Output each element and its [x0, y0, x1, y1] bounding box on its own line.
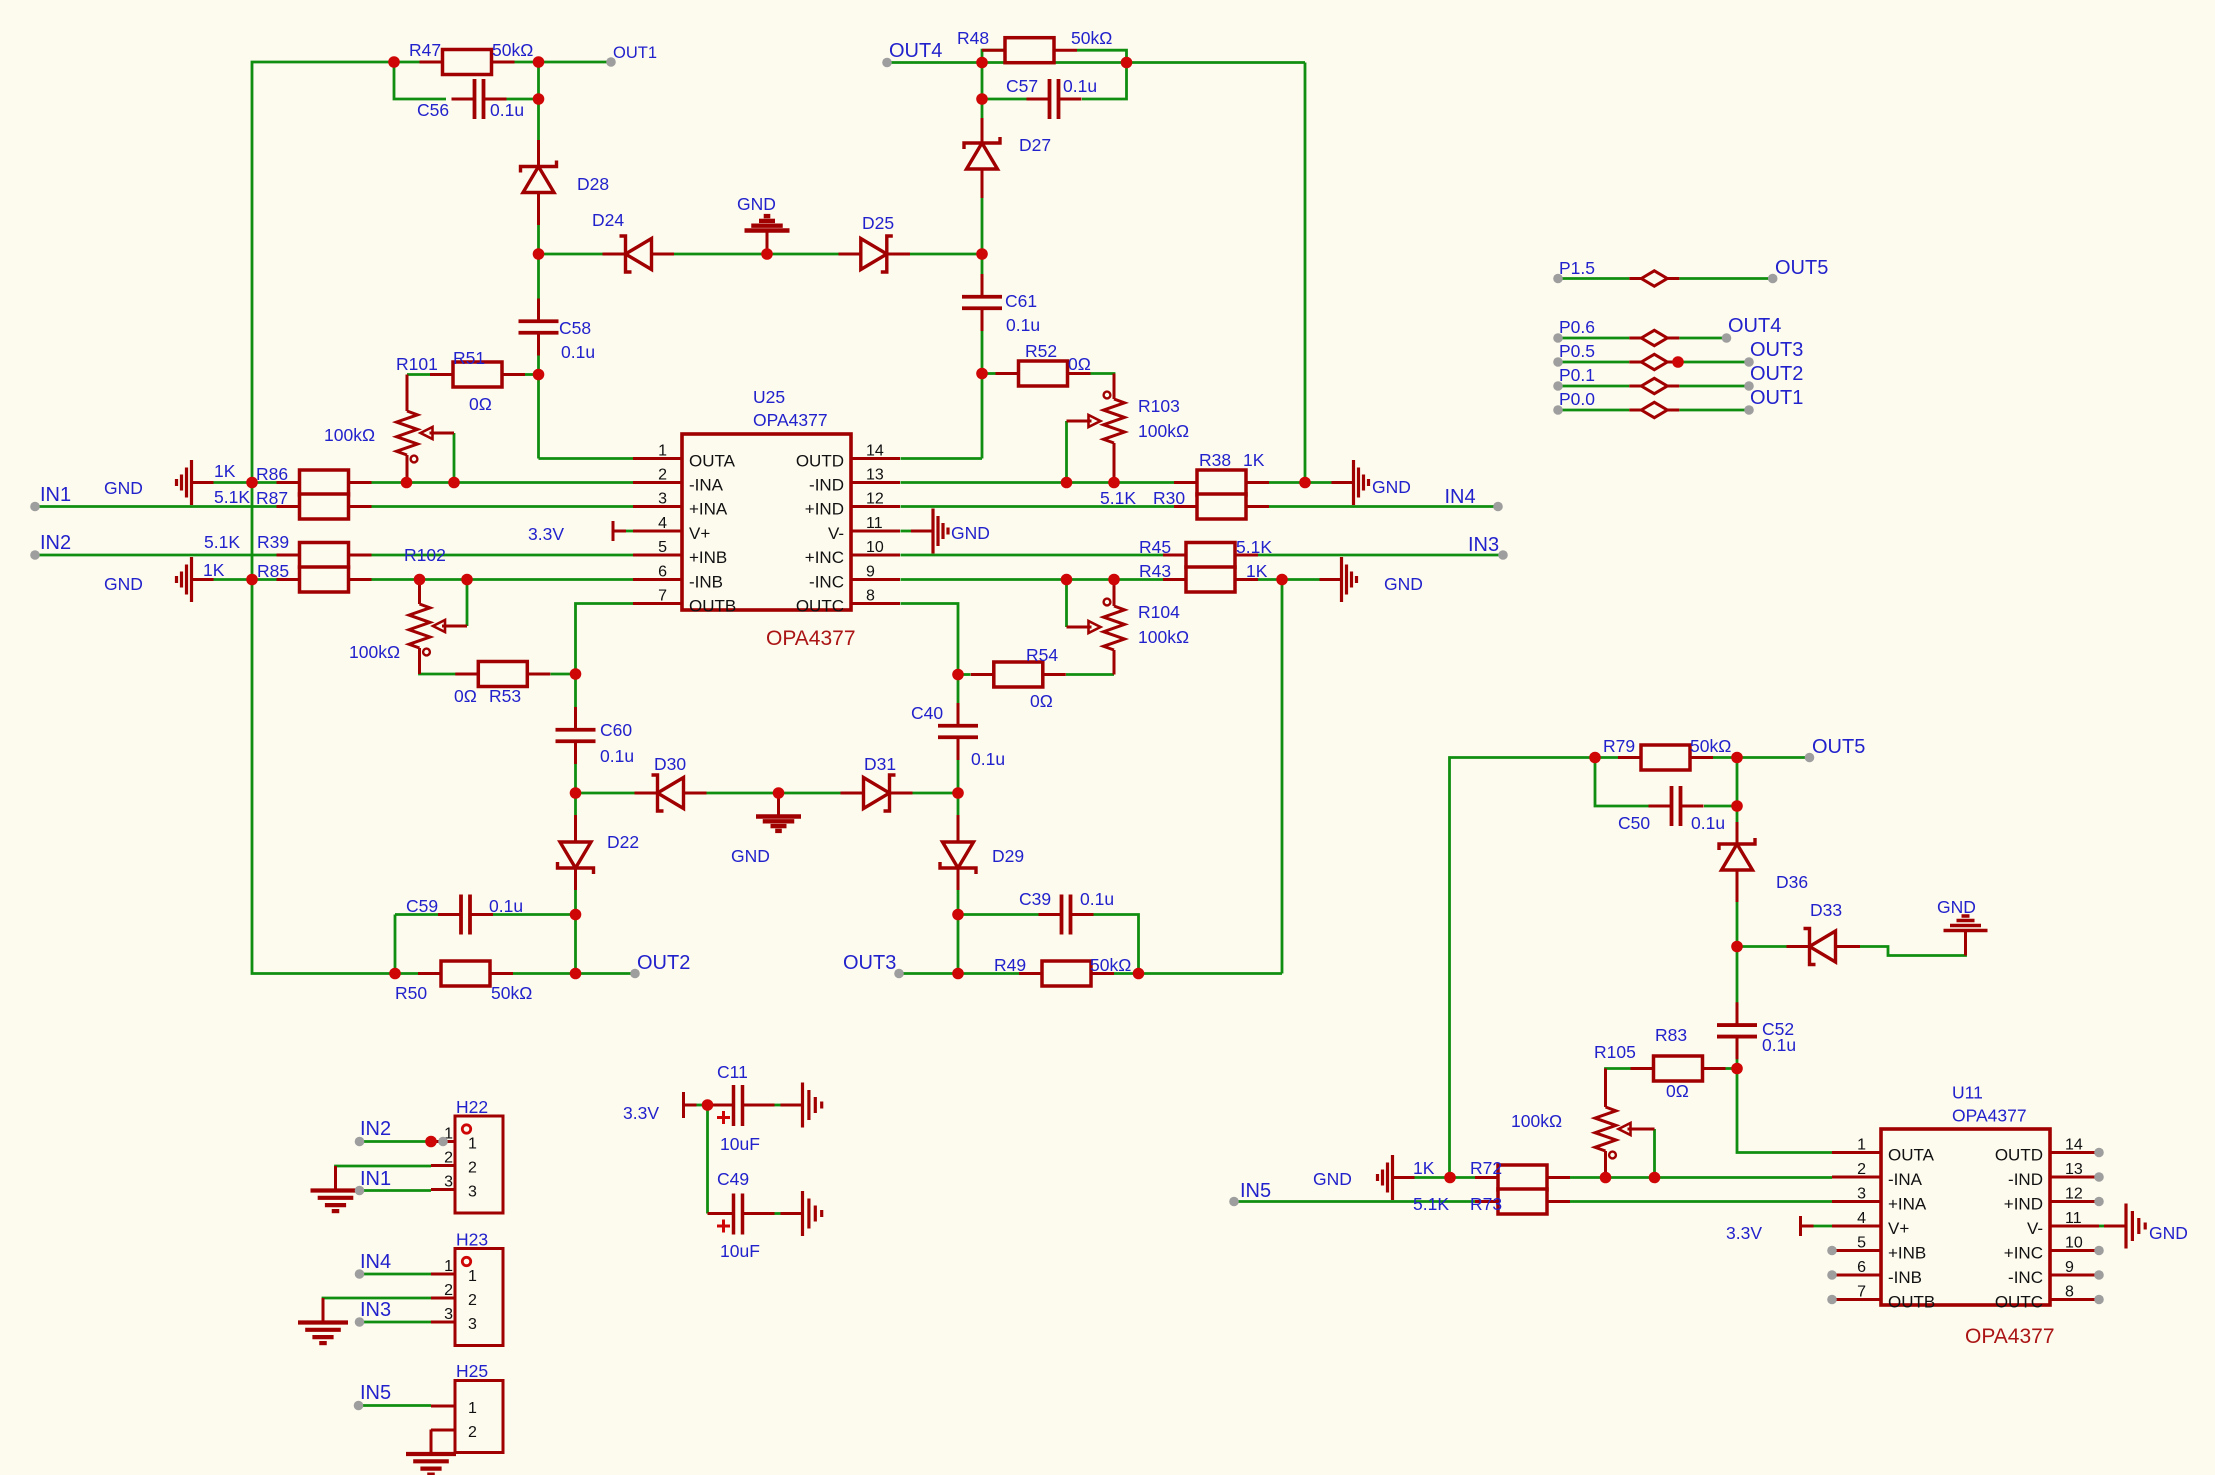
svg-text:-IND: -IND	[2008, 1170, 2043, 1189]
svg-text:OUTC: OUTC	[1995, 1293, 2043, 1312]
svg-text:5.1K: 5.1K	[1413, 1194, 1449, 1214]
svg-text:D30: D30	[654, 754, 686, 774]
svg-text:2: 2	[1857, 1161, 1866, 1178]
svg-text:IN3: IN3	[360, 1299, 391, 1321]
wire IN4 to H23 pin1	[360, 1273, 432, 1276]
svg-text:C39: C39	[1019, 889, 1051, 909]
wire R101 wiper	[453, 433, 456, 483]
wire R87 to U25 pin3	[372, 505, 634, 508]
svg-text:GND: GND	[1372, 477, 1411, 497]
svg-text:R49: R49	[994, 955, 1026, 975]
svg-text:5: 5	[658, 539, 667, 556]
svg-text:OUT4: OUT4	[889, 40, 942, 62]
svg-text:OPA4377: OPA4377	[766, 627, 856, 650]
wire C52 to R83 node	[1736, 1047, 1739, 1069]
pin header H23	[431, 1249, 503, 1346]
wire node to D30	[576, 792, 635, 795]
svg-text:5: 5	[1857, 1235, 1866, 1252]
open pin end	[1827, 1295, 1837, 1305]
wire C50 left jog	[1595, 758, 1649, 807]
open pin end	[1553, 405, 1563, 415]
wire C59 left	[395, 913, 438, 916]
open pin end	[355, 1137, 365, 1147]
resistor R43	[1163, 567, 1258, 592]
wire R53 to node	[551, 673, 576, 676]
wire node to D33	[1737, 945, 1787, 948]
potentiometer R104	[1104, 580, 1125, 675]
svg-text:R54: R54	[1026, 645, 1058, 665]
zener diode D29	[940, 815, 976, 890]
open pin end	[2094, 1148, 2104, 1158]
svg-text:6: 6	[1857, 1259, 1866, 1276]
wire D24 left	[539, 253, 611, 256]
open pin end	[355, 1186, 365, 1196]
wire U25 pin10 to R45	[901, 554, 1164, 557]
svg-text:0Ω: 0Ω	[469, 394, 492, 414]
ground for R86	[177, 460, 214, 505]
wire jumper to OUT3	[1679, 361, 1749, 364]
svg-text:GND: GND	[1384, 574, 1423, 594]
wire to R43	[1114, 578, 1163, 581]
junction	[952, 669, 964, 681]
junction	[1061, 574, 1073, 586]
junction	[401, 477, 413, 489]
svg-text:0.1u: 0.1u	[1762, 1035, 1796, 1055]
wire C56 left	[394, 62, 446, 99]
junction	[1133, 968, 1145, 980]
wire R83 to node	[1726, 1067, 1738, 1070]
svg-text:R43: R43	[1139, 561, 1171, 581]
wire P1.5 to jumper	[1558, 277, 1629, 280]
wire D27 anode to D25 node	[981, 198, 984, 254]
ground for R85	[177, 557, 214, 602]
open pin end	[2094, 1246, 2104, 1256]
potentiometer R102	[409, 580, 430, 675]
open pin end	[1229, 1197, 1239, 1207]
svg-text:12: 12	[2065, 1186, 2083, 1203]
wire D31 to node	[913, 792, 959, 795]
wire to R50	[395, 972, 418, 975]
wire C57 left	[982, 98, 1027, 101]
svg-text:R52: R52	[1025, 341, 1057, 361]
resistor R52	[996, 361, 1091, 386]
open pin end	[355, 1269, 365, 1279]
wire to R86	[252, 481, 277, 484]
resistor R30	[1174, 494, 1269, 519]
pin header H25	[431, 1381, 503, 1453]
junction	[1731, 1063, 1743, 1075]
svg-text:9: 9	[866, 564, 875, 581]
svg-text:1: 1	[658, 443, 667, 460]
wire node down to pin14 row	[981, 374, 984, 459]
svg-text:H25: H25	[456, 1361, 488, 1381]
resistor R73	[1475, 1189, 1570, 1214]
open pin end	[354, 1401, 364, 1411]
open pin end	[1827, 1246, 1837, 1256]
junction	[425, 1136, 437, 1148]
svg-text:3.3V: 3.3V	[528, 524, 564, 544]
svg-text:0.1u: 0.1u	[1006, 315, 1040, 335]
junction	[976, 93, 988, 105]
svg-text:0.1u: 0.1u	[561, 342, 595, 362]
wire node to R49	[958, 972, 1019, 975]
svg-text:7: 7	[658, 588, 667, 605]
jumper P1.5-OUT5	[1629, 271, 1679, 286]
svg-text:2: 2	[468, 1292, 477, 1309]
svg-text:R48: R48	[957, 28, 989, 48]
svg-text:3.3V: 3.3V	[1726, 1223, 1762, 1243]
junction	[448, 477, 460, 489]
wire R48 right jog	[1077, 50, 1127, 62]
svg-text:P0.5: P0.5	[1559, 341, 1595, 361]
wire R45 to IN3 flag	[1258, 554, 1503, 557]
wire R104 wiper riser	[1065, 580, 1068, 628]
svg-text:+IND: +IND	[805, 500, 844, 519]
svg-text:R51: R51	[453, 348, 485, 368]
ground U11 pin11	[2104, 1204, 2145, 1249]
wire to OUT1 flag	[539, 61, 612, 64]
R103 wiper arrow	[1067, 415, 1101, 427]
open pin end	[438, 1137, 448, 1147]
junction	[976, 248, 988, 260]
svg-text:OUT3: OUT3	[1750, 339, 1803, 361]
wire P0.1 to jumper	[1558, 385, 1629, 388]
wire node to GND	[1282, 578, 1320, 581]
wire R103 bottom to pin13 row	[1113, 443, 1116, 483]
wire C49 node	[708, 1212, 711, 1215]
capacitor C11 (polarized)	[708, 1085, 775, 1126]
svg-text:OUTB: OUTB	[689, 597, 736, 616]
svg-text:0Ω: 0Ω	[1030, 691, 1053, 711]
open pin end	[2094, 1295, 2104, 1305]
svg-text:OUTA: OUTA	[689, 452, 736, 471]
potentiometer R103	[1104, 374, 1125, 483]
open pin end	[1827, 1270, 1837, 1280]
svg-text:50kΩ: 50kΩ	[492, 40, 533, 60]
wire to R38	[1114, 481, 1174, 484]
svg-text:R47: R47	[409, 40, 441, 60]
wire D33 to GND	[1860, 932, 1966, 956]
svg-text:R38: R38	[1199, 450, 1231, 470]
ground H22	[311, 1166, 361, 1211]
capacitor C40	[938, 703, 978, 760]
wire jumper to OUT4	[1679, 337, 1726, 340]
wire jumper to OUT5	[1679, 277, 1772, 280]
svg-text:6: 6	[658, 564, 667, 581]
junction	[246, 574, 258, 586]
svg-text:C11: C11	[717, 1062, 748, 1082]
open pin end	[2094, 1197, 2104, 1207]
wire U25 pin9 to wiper node	[901, 578, 1067, 581]
resistor R79	[1618, 745, 1713, 770]
svg-text:7: 7	[1857, 1284, 1866, 1301]
resistor R83	[1631, 1056, 1726, 1081]
svg-text:0Ω: 0Ω	[1666, 1081, 1689, 1101]
wire P0.0 to jumper	[1558, 409, 1629, 412]
zener diode D27	[964, 118, 1000, 198]
svg-text:3: 3	[1857, 1186, 1866, 1203]
pin header H22	[431, 1116, 503, 1213]
svg-text:OPA4377: OPA4377	[1965, 1325, 2055, 1348]
svg-text:D33: D33	[1810, 900, 1842, 920]
wire IN2 to H22 pin1	[360, 1140, 432, 1143]
junction	[1649, 1172, 1661, 1184]
svg-text:3: 3	[468, 1316, 477, 1333]
svg-text:D28: D28	[577, 174, 609, 194]
wire node to C57 node	[982, 61, 1127, 64]
wire C40 to D31 node	[957, 745, 960, 793]
wire U25 pin12 to R30	[901, 505, 1175, 508]
wire C39 left	[958, 913, 1039, 916]
open pin end	[1744, 405, 1754, 415]
svg-text:-INC: -INC	[2008, 1268, 2043, 1287]
svg-text:1K: 1K	[203, 560, 225, 580]
svg-text:+IND: +IND	[2004, 1195, 2043, 1214]
svg-text:OUT5: OUT5	[1775, 257, 1828, 279]
junction	[570, 968, 582, 980]
wire 3.3V to U25 pin4	[613, 530, 633, 533]
wire R51 to node	[525, 373, 539, 376]
wire C39 right down	[1094, 915, 1139, 974]
junction	[1061, 477, 1073, 489]
open pin end	[1805, 753, 1815, 763]
capacitor C58	[519, 299, 559, 356]
svg-text:IN4: IN4	[360, 1251, 391, 1273]
svg-text:14: 14	[866, 443, 884, 460]
op-amp U11 OPA4377	[1832, 1129, 2099, 1312]
wire to right vertical	[1127, 61, 1306, 64]
svg-text:GND: GND	[104, 478, 143, 498]
wire GND node to D31	[779, 792, 841, 795]
wire node to R72	[1450, 1176, 1475, 1179]
wire C49 to GND	[775, 1212, 781, 1215]
svg-text:U11: U11	[1952, 1083, 1983, 1103]
open pin end	[1744, 357, 1754, 367]
svg-text:0.1u: 0.1u	[489, 896, 523, 916]
junction	[952, 787, 964, 799]
junction	[1731, 800, 1743, 812]
capacitor C39	[1039, 895, 1094, 935]
svg-text:4: 4	[1857, 1210, 1866, 1227]
svg-text:GND: GND	[737, 194, 776, 214]
capacitor C52	[1717, 1002, 1757, 1059]
resistor R39	[277, 543, 372, 568]
svg-text:100kΩ: 100kΩ	[1138, 421, 1189, 441]
svg-text:OUT4: OUT4	[1728, 315, 1781, 337]
svg-text:-INA: -INA	[689, 476, 724, 495]
3.3V supply U25	[613, 521, 626, 541]
resistor R47	[420, 50, 515, 75]
wire OUT4 flag to node	[887, 61, 982, 64]
junction	[246, 477, 258, 489]
open pin end	[1498, 550, 1508, 560]
svg-text:0Ω: 0Ω	[454, 686, 477, 706]
resistor R86	[277, 470, 372, 495]
wire node to C52	[1736, 947, 1739, 1020]
wire C11 node down to C49	[706, 1105, 709, 1214]
svg-text:10: 10	[866, 539, 884, 556]
svg-text:GND: GND	[1937, 897, 1976, 917]
svg-text:GND: GND	[1313, 1169, 1352, 1189]
svg-text:R30: R30	[1153, 488, 1185, 508]
wire node to U11 pin1	[1737, 1069, 1857, 1153]
junction	[1121, 57, 1133, 69]
wire C60 to D30 node	[574, 749, 577, 793]
junction	[1672, 356, 1684, 368]
ground above D33	[1944, 916, 1988, 956]
svg-text:-IND: -IND	[809, 476, 844, 495]
wire U25 pin13 to wiper node	[901, 481, 1067, 484]
svg-text:1: 1	[1857, 1137, 1866, 1154]
svg-text:1K: 1K	[1413, 1158, 1435, 1178]
open pin end	[1768, 274, 1778, 284]
svg-text:C50: C50	[1618, 813, 1650, 833]
svg-text:0.1u: 0.1u	[600, 746, 634, 766]
ground bottom middle	[756, 793, 801, 831]
svg-text:OUTC: OUTC	[796, 597, 844, 616]
svg-text:R86: R86	[256, 464, 288, 484]
wire to D28 cathode	[537, 99, 540, 140]
open pin end	[30, 550, 40, 560]
wire R105 wiper riser	[1653, 1129, 1656, 1178]
svg-text:D31: D31	[864, 754, 896, 774]
svg-text:-INB: -INB	[689, 573, 723, 592]
R101 wiper arrow	[421, 427, 455, 439]
wire OUT1 to C56 node	[537, 62, 540, 99]
svg-text:GND: GND	[2149, 1223, 2188, 1243]
junction	[1444, 1172, 1456, 1184]
wire R102 wiper drop	[466, 580, 469, 627]
junction	[570, 668, 582, 680]
3.3V supply C11	[684, 1092, 697, 1118]
open pin end	[2094, 1172, 2104, 1182]
svg-text:OUTA: OUTA	[1888, 1146, 1935, 1165]
capacitor C50	[1649, 786, 1704, 826]
resistor R49	[1019, 961, 1114, 986]
open pin end	[606, 57, 616, 67]
R104 wiper arrow	[1067, 621, 1101, 633]
wire D29 to C39 node	[957, 875, 960, 915]
wire R73 to U11 pin3	[1570, 1200, 1832, 1203]
wire 3.3V to U11 pin4	[1801, 1225, 1833, 1228]
svg-text:10uF: 10uF	[720, 1134, 760, 1154]
wire D22 to C59 node	[574, 875, 577, 915]
junction	[570, 787, 582, 799]
open pin end	[630, 969, 640, 979]
svg-text:V-: V-	[828, 524, 844, 543]
wire C50 node to D36	[1736, 806, 1739, 844]
svg-text:0.1u: 0.1u	[1691, 813, 1725, 833]
wire IN3 to H23 pin3	[360, 1321, 432, 1324]
svg-text:D27: D27	[1019, 135, 1051, 155]
svg-text:R102: R102	[404, 545, 446, 565]
wire node to C58	[537, 254, 540, 316]
svg-text:5.1K: 5.1K	[1100, 488, 1136, 508]
zener diode D22	[558, 815, 594, 890]
junction	[761, 248, 773, 260]
svg-text:C59: C59	[406, 896, 438, 916]
wire C50 right	[1704, 805, 1737, 808]
ground C49	[781, 1191, 822, 1236]
svg-text:C58: C58	[559, 318, 591, 338]
svg-text:R83: R83	[1655, 1025, 1687, 1045]
potentiometer R101	[397, 375, 418, 483]
capacitor C57	[1027, 79, 1082, 119]
svg-text:5.1K: 5.1K	[214, 487, 250, 507]
svg-text:R87: R87	[256, 488, 288, 508]
resistor R51	[430, 362, 525, 387]
resistor R85	[277, 567, 372, 592]
svg-text:1: 1	[468, 1136, 477, 1153]
wire C59 node to OUT2 node	[574, 915, 577, 974]
wire node to right vertical	[1139, 972, 1283, 975]
junction	[570, 909, 582, 921]
svg-text:IN1: IN1	[360, 1168, 391, 1190]
wire jumper to OUT1	[1679, 409, 1749, 412]
svg-text:-INC: -INC	[809, 573, 844, 592]
wire D25 to node	[902, 253, 983, 256]
svg-text:IN4: IN4	[1445, 486, 1476, 508]
svg-text:H22: H22	[456, 1097, 488, 1117]
svg-text:IN2: IN2	[360, 1118, 391, 1140]
svg-text:C61: C61	[1005, 291, 1037, 311]
wire node to D22	[574, 793, 577, 842]
svg-text:V+: V+	[1888, 1219, 1909, 1238]
wire to OUT2 flag	[576, 972, 636, 975]
junction	[1108, 574, 1120, 586]
resistor R48	[982, 38, 1077, 63]
junction	[388, 56, 400, 68]
wire R104 bottom	[1113, 650, 1116, 675]
svg-text:2: 2	[468, 1424, 477, 1441]
svg-text:1: 1	[468, 1268, 477, 1285]
svg-text:3: 3	[444, 1306, 453, 1323]
R105 wiper arrow	[1619, 1123, 1655, 1135]
junction	[414, 574, 426, 586]
ground top	[745, 216, 790, 254]
svg-text:10uF: 10uF	[720, 1241, 760, 1261]
svg-text:8: 8	[2065, 1284, 2074, 1301]
svg-text:+INC: +INC	[2004, 1244, 2043, 1263]
svg-text:0.1u: 0.1u	[490, 100, 524, 120]
junction	[1731, 941, 1743, 953]
wire U25 pin8 OUTC down	[901, 604, 959, 675]
svg-text:+INC: +INC	[805, 548, 844, 567]
svg-text:13: 13	[2065, 1161, 2083, 1178]
ground right of R38	[1332, 460, 1369, 505]
wire C39 node to OUT3 node	[957, 915, 960, 974]
wire R102 top	[418, 580, 421, 601]
capacitor C61	[962, 274, 1002, 331]
svg-text:2: 2	[444, 1150, 453, 1167]
resistor R53	[455, 662, 550, 687]
svg-text:OUT1: OUT1	[1750, 387, 1803, 409]
wire to D27 cathode	[981, 99, 984, 140]
open pin end	[882, 58, 892, 68]
junction	[1299, 477, 1311, 489]
junction	[773, 787, 785, 799]
wire U25 pin11 to GND	[901, 530, 912, 533]
junction	[461, 574, 473, 586]
open pin end	[1553, 274, 1563, 284]
wire R30 to IN4 flag	[1269, 505, 1498, 508]
svg-text:9: 9	[2065, 1259, 2074, 1276]
svg-text:OPA4377: OPA4377	[1952, 1106, 2027, 1126]
zener diode D24	[603, 236, 675, 272]
svg-text:P0.1: P0.1	[1559, 365, 1595, 385]
svg-text:R53: R53	[489, 686, 521, 706]
svg-text:50kΩ: 50kΩ	[491, 983, 532, 1003]
